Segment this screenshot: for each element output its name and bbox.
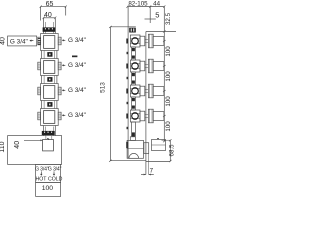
svg-text:G 3/4": G 3/4" [35,167,49,173]
dimension 7 [141,154,154,176]
svg-text:82-105: 82-105 [128,1,148,8]
valve body 4 outer [41,109,59,126]
handle row 1 [153,37,164,46]
port stub left row 1 [126,39,128,44]
valve 4 right port tab [58,112,61,120]
svg-text:513: 513 [100,82,107,93]
svg-text:G 3/4": G 3/4" [68,87,86,94]
dimension 5 leader [145,18,156,20]
trim sleeve row 1 [148,34,153,48]
valve 1 right port tab [58,37,61,45]
handle row 3 [153,87,164,96]
knob circle row 4 [132,113,139,120]
wall plate line [145,32,147,163]
dimension 513 line [109,26,112,162]
svg-text:G 3/4": G 3/4" [68,62,86,69]
right dimension line column [163,7,166,143]
ditto dash between row 1 and 2 labels [72,56,77,58]
svg-text:COLD: COLD [48,177,63,183]
nipple between row 4 and thermostat [131,122,135,136]
mixer valve square [43,140,54,151]
valve body 2 outer [41,59,59,76]
cartridge square row 1 [130,35,140,47]
svg-text:32.5: 32.5 [165,12,172,25]
svg-text:40: 40 [44,12,52,19]
trim sleeve row 4 [148,109,153,123]
svg-text:100: 100 [165,71,172,82]
arrow to G 3/4 row 2 [62,64,65,66]
cold down arrow [53,171,55,175]
thermostat trim rect [144,143,149,154]
plate bottom edge [146,161,170,163]
nipple between side rows 1-2 [131,47,135,60]
svg-text:100: 100 [165,96,172,107]
svg-text:40: 40 [14,141,21,149]
extension line plate top to right margin [146,31,176,33]
handle row 2 [153,62,164,71]
thermostat handle top tick [157,138,159,140]
svg-text:5: 5 [155,11,159,20]
body rect row 4 [140,111,145,121]
svg-text:HOT: HOT [36,177,48,183]
valve 2 left port tab [38,62,41,70]
side row 2 [126,59,164,73]
mixer mounting box [8,136,62,165]
valve body 3 inner square [44,86,55,99]
knob circle row 3 [132,88,139,95]
side row 3 [126,84,164,98]
dimension 40 top [43,17,57,20]
arrow to G 3/4 row 4 [62,114,65,116]
outlet label box bottom cell [36,182,61,196]
dimension 68.5 line [162,139,172,162]
valve 4 left port tab [38,112,41,120]
cartridge square row 2 [130,60,140,72]
top stub thread hatch [43,27,56,31]
side row 1 [126,34,164,48]
valve body 3 outer [41,84,59,101]
top inlet stub pipe [44,18,56,34]
thread nut between 3 and 4 [47,102,52,107]
nipple between body 1 and 2 [42,51,57,59]
svg-text:G 3/4": G 3/4" [68,37,86,44]
thread nut between 1 and 2 [47,52,52,57]
svg-text:68.5: 68.5 [169,144,176,157]
svg-text:65: 65 [46,1,54,8]
nipple between side rows 3-4 [131,97,135,110]
nipple between body 4 and mixer box [44,126,56,136]
side top stub thread [129,28,136,33]
pipe lines to trim row 1 [145,39,149,41]
nipple between body 2 and 3 [42,76,57,84]
svg-text:100: 100 [165,46,172,57]
svg-text:G 3/4": G 3/4" [48,167,62,173]
extension line middle (plate front) [149,7,151,23]
arrow to G 3/4 row 1 [62,39,65,41]
nipple between body 3 and 4 [42,101,57,109]
side row 4 [126,109,164,123]
label left arrow [29,40,33,42]
dimension 40 in box leader [24,139,43,141]
valve body 1 outer [41,34,59,51]
label G 3/4 left callout box [8,36,37,46]
dimension line 82-105 and 44 [127,5,166,8]
hot down arrow [40,171,42,175]
port stub left row 4 [126,114,128,119]
svg-text:44: 44 [153,1,160,8]
body rect row 2 [140,61,145,71]
thermostat left port dark [126,142,128,148]
svg-text:110: 110 [0,141,6,152]
port stub left row 3 [126,89,128,94]
valve body 4 inner square [44,111,55,124]
handle row 4 [153,112,164,121]
mixer square top center tick [47,138,49,139]
thread hatch above mixer box [42,131,55,135]
svg-text:7: 7 [150,168,154,175]
pipe lines to trim row 3 [145,89,149,91]
outlet label box [36,164,61,182]
cartridge square row 4 [130,110,140,122]
trim sleeve row 2 [148,59,153,73]
extension line left of 82-105 [127,7,129,27]
svg-text:G 3/4": G 3/4" [68,112,86,119]
dimension 513 top extension [110,26,135,28]
mixer stub verticals [46,136,52,140]
thread nut between 2 and 3 [47,77,52,82]
dimension 513 bottom extension / assembly bottom [110,160,145,162]
svg-text:100: 100 [42,185,54,192]
port stub left row 2 [126,64,128,69]
svg-text:40: 40 [0,37,6,45]
cartridge square row 3 [130,85,140,97]
thermostat handle [152,140,166,151]
pipe lines to trim row 4 [145,114,149,116]
valve 3 left port tab [38,87,41,95]
valve 1 left port tab [38,37,41,45]
valve body 1 inner square [44,36,55,49]
thermostat outlet dome [129,153,139,158]
pipe lines to trim row 2 [145,64,149,66]
thermostat handle mid line [152,144,166,146]
valve 3 right port tab [58,87,61,95]
svg-text:G 3/4": G 3/4" [10,38,28,45]
knob circle row 1 [132,38,139,45]
knob circle row 2 [132,63,139,70]
trim sleeve row 3 [148,84,153,98]
thermostat body side [127,137,143,158]
valve body 2 inner square [44,61,55,74]
svg-text:100: 100 [165,121,172,132]
arrow to G 3/4 row 3 [62,89,65,91]
rail screw dots [127,52,129,129]
side back rail [127,27,129,158]
valve 2 right port tab [58,62,61,70]
body rect row 3 [140,86,145,96]
dimension 65 top [40,5,67,20]
body rect row 1 [140,36,145,46]
nipple between side rows 2-3 [131,72,135,85]
